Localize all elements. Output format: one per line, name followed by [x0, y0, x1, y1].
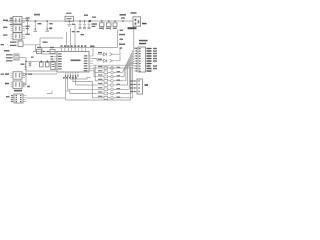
wire AVCC rail to IC top [74, 24, 76, 48]
label J2 right [145, 84, 149, 86]
transistor row Q5 [96, 88, 122, 91]
header J5 [14, 94, 23, 103]
label J5 name [14, 90, 22, 92]
label above D1 [34, 14, 40, 16]
varistor RV2 [100, 23, 105, 27]
diode D3 row V [104, 59, 113, 62]
resistor R3 [37, 49, 42, 53]
wire gnd dash link [23, 45, 40, 52]
labels diode rows [98, 52, 102, 53]
relay K1 [13, 17, 22, 25]
label J4 right [142, 23, 147, 25]
pins U1 left [54, 54, 58, 69]
label J1 title1 [139, 40, 148, 42]
label GND bar2 [10, 45, 17, 46]
pins U1 bottom [66, 72, 79, 76]
varistor RV3 [107, 23, 112, 27]
diode D2 row U [104, 53, 113, 56]
label RV4 [113, 28, 117, 29]
label opto B out [27, 86, 30, 87]
label J4 name [131, 12, 137, 14]
pins K4 [11, 74, 26, 78]
label net left edge low [1, 74, 5, 75]
capacitor C2 [79, 21, 82, 26]
label rail v3 [81, 34, 85, 35]
wire row1 up [123, 49, 135, 73]
label net left mid [1, 44, 5, 45]
label net RV1a [92, 23, 98, 25]
labels J1 names col2 [153, 48, 157, 49]
label J4 below [128, 27, 137, 29]
labels Q rows right [117, 71, 121, 98]
transistor row Q6 [96, 92, 122, 95]
dc jack J4 [133, 17, 141, 26]
label GND bar1 [10, 42, 17, 43]
wire row6 up [131, 61, 134, 94]
diode D6 opto B out [24, 83, 27, 86]
junction dots U1 bottom [65, 75, 66, 76]
relay K2 [13, 25, 22, 33]
mcu U1 [57, 52, 89, 73]
wire vertical to test point A [46, 21, 48, 29]
wire step feed row3 [94, 65, 97, 81]
label arrow K3 [3, 34, 8, 35]
label net left top [3, 20, 8, 21]
capacitor C4 [88, 21, 91, 26]
labels J1 pin numbers inner [139, 48, 141, 49]
label rail net3 [120, 39, 124, 40]
label batt line3 [6, 60, 13, 61]
wire AREF rail [66, 32, 68, 48]
labels J2 pin numbers inner [138, 80, 140, 81]
label Q0 left [98, 66, 103, 67]
wire rows to right [122, 72, 133, 98]
pins J5 [11, 96, 27, 102]
label A [49, 28, 52, 30]
wire net rail right [117, 30, 119, 48]
marks K2 inner [15, 26, 16, 31]
diode D5 opto A out [24, 73, 27, 76]
label net mid [43, 42, 48, 43]
relay K3 [13, 33, 22, 40]
wire IC right pin row1 [93, 59, 97, 61]
transistor row Q1 [96, 71, 122, 74]
pins U1 right [89, 56, 93, 71]
header J2 [137, 79, 143, 94]
cap C1 plates [67, 24, 71, 26]
label K1 pins [10, 18, 13, 19]
label batt line2 [6, 57, 13, 58]
junction dot opto row [25, 73, 27, 75]
junction dots bus [35, 20, 37, 22]
header J1 [138, 47, 146, 72]
label opto A out [28, 73, 32, 74]
label rail net1 [120, 30, 124, 31]
label A net [49, 23, 53, 24]
label J1 title2 [139, 43, 146, 45]
label above bus x84 [84, 15, 88, 16]
transistor row Q2 [96, 75, 122, 78]
label Q0 right [117, 67, 121, 68]
label R4 [50, 47, 54, 48]
marks J4 inner [135, 19, 137, 21]
pins K3 [11, 35, 26, 39]
label K1 out [26, 17, 30, 18]
labels J2 left [130, 80, 133, 81]
capacitor C5 [40, 62, 44, 67]
marks K3 inner [15, 34, 16, 38]
wire K-boxes to bus [25, 19, 28, 35]
marks K4 inner [15, 73, 16, 78]
wire label hook [47, 91, 52, 94]
labels Q rows left [98, 70, 103, 97]
resistor R2 box [18, 41, 23, 47]
label above U1 right [90, 46, 95, 48]
capacitor C6 [46, 62, 50, 67]
label U2 name [66, 13, 72, 14]
opto K5 [13, 81, 22, 88]
wire stub varistor RV2 [110, 26, 112, 30]
transistor row Q7 [96, 96, 122, 99]
label reset 1 [31, 57, 34, 58]
wire IC right net2 [93, 67, 135, 69]
label rail v1 [72, 31, 75, 32]
wire IC right net3 [93, 71, 96, 73]
pins J2 [134, 81, 138, 92]
testpoint A arrow [46, 29, 48, 31]
label above bus x92 [92, 17, 96, 18]
wire jack drop [134, 26, 138, 48]
wire step row7 [73, 76, 96, 98]
pin dots J5 [11, 95, 12, 96]
label pwr arrow [4, 50, 10, 52]
pins K1 [11, 19, 26, 23]
pin dots J2 [134, 80, 135, 81]
label C2 C3 C4 [79, 27, 82, 28]
junction dots osc rail [41, 61, 43, 63]
wire opto row to IC [25, 73, 57, 75]
wire step feed row4 [76, 76, 97, 85]
labels U1 left pin names [58, 53, 62, 54]
label opto B [5, 83, 9, 84]
crystal Y1 [51, 62, 55, 70]
junction dots reset row [43, 51, 45, 53]
wire osc upper rail [26, 60, 57, 62]
transistor row Q4 [96, 84, 122, 87]
labels U1 pin numbers top [61, 45, 63, 47]
wire diode row U out [97, 49, 120, 55]
pins K5 [11, 83, 26, 87]
wire row5 up [129, 59, 134, 90]
wire J3 row [27, 97, 66, 99]
regulator U2 [65, 16, 74, 21]
wire loop row6 [66, 76, 97, 94]
wire osc lower rail [26, 70, 57, 72]
label K3 out [26, 34, 30, 35]
wire row3 up [126, 54, 134, 81]
wire stub varistor RV1 [103, 26, 105, 30]
labels U1 right pin names [84, 55, 88, 56]
battery B1 [14, 54, 19, 60]
wire step feed row2 [94, 68, 96, 77]
label opto A [5, 73, 9, 74]
label R3 [37, 47, 41, 48]
label net RV1b [92, 26, 96, 27]
wire reset row [33, 51, 57, 53]
marks Y1 inner [52, 63, 54, 66]
wire VCC rail to IC top [70, 28, 72, 48]
TVS D1 bar [34, 30, 37, 33]
labels U1 pin numbers bottom [63, 77, 65, 79]
wire row2 up [124, 51, 134, 77]
wire opto B stub [25, 84, 26, 86]
wire cap C1 below regulator [68, 21, 70, 24]
wire IC right net1 [93, 64, 135, 66]
label K2 out [26, 26, 30, 27]
wire row4 up [128, 56, 134, 85]
wire battery to rail [20, 57, 27, 59]
label RV2 [99, 28, 104, 29]
TVS D1 arrow [34, 29, 36, 31]
pins K2 [11, 27, 26, 31]
label J5 left [6, 96, 10, 97]
pins J1 [134, 49, 138, 72]
wire J2 feeds [131, 81, 134, 92]
label U1 name [71, 60, 81, 62]
pins U1 top [62, 48, 86, 52]
label RV3 [106, 28, 111, 29]
label pwr net [120, 14, 127, 16]
pin dots J1 [136, 48, 137, 49]
opto K4 [13, 72, 22, 79]
wire row7 up [133, 63, 134, 98]
label net 96Z [21, 64, 25, 65]
wire vertical to TVS D1 [34, 21, 36, 29]
label rail net2 [119, 34, 125, 36]
label rail net4 [119, 44, 125, 46]
testpoint A bar [46, 30, 49, 33]
label batt line1 [6, 54, 13, 55]
wire main +V bus [6, 20, 133, 22]
diode D4 left [29, 61, 32, 67]
transistor row Q3 [96, 79, 122, 82]
label U2 inner [67, 18, 72, 19]
marks J5 inner [16, 95, 18, 96]
wire loop outer [66, 67, 131, 100]
wire net upper [40, 37, 63, 39]
label plus mark [120, 47, 123, 49]
label rail v2 [77, 31, 80, 32]
varistor RV4 [113, 23, 117, 27]
wire diode row V out [97, 55, 120, 61]
gnd arrow mid [25, 63, 27, 67]
wire IC right pin up [92, 48, 94, 57]
label C1 [72, 24, 75, 25]
capacitor C3 [83, 21, 86, 26]
labels U1 left pin nets [51, 56, 54, 57]
label arrow K2 [3, 27, 8, 28]
wire left vertical rail [25, 58, 27, 85]
wire to IC pin1 [40, 38, 54, 54]
resistor R4 [50, 49, 55, 53]
transistor row Q0 [104, 67, 113, 70]
label D1 [38, 23, 42, 24]
labels J1 names col1 [147, 48, 152, 49]
wire loop row5 [68, 76, 97, 89]
marks B1 inner [15, 54, 18, 57]
marks K5 inner [15, 82, 16, 87]
wire long net to IC [40, 47, 118, 49]
marks K1 inner [15, 18, 16, 23]
